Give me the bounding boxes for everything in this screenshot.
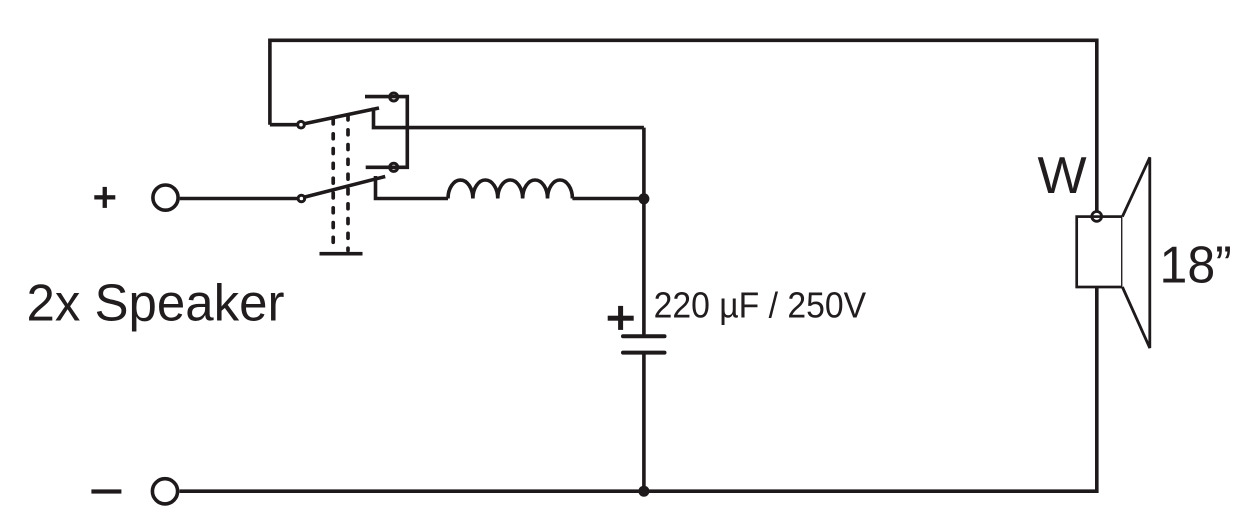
label + polarity at input — [94, 187, 115, 208]
switch S1b lower throw contact circle — [390, 163, 398, 171]
terminal - input circle — [152, 479, 177, 504]
speaker LS1 + terminal circle — [1092, 212, 1102, 222]
wire: bottom net from - input to woofer - — [180, 287, 1097, 491]
junction node B dot — [638, 486, 649, 497]
speaker LS1 cone — [1122, 157, 1149, 348]
switch S1b blade (lower pole) — [303, 177, 385, 198]
wire: stub to upper switch pole — [270, 123, 298, 127]
switch S1a throw terminal — [374, 108, 644, 128]
switch S1a pole contact circle — [298, 121, 305, 128]
wire: upper contact row to NC contact — [365, 97, 407, 168]
wire: inductor to node A — [572, 197, 644, 201]
wire: + input to lower switch pole — [180, 197, 298, 201]
inductor L1 — [448, 180, 572, 199]
svg-text:2x Speaker: 2x Speaker — [27, 275, 285, 333]
svg-text:220 µF / 250V: 220 µF / 250V — [654, 285, 867, 326]
junction node A dot — [638, 193, 649, 204]
terminal + input circle — [153, 185, 178, 210]
capacitor C1 plate top — [623, 334, 665, 338]
switch S1a blade (upper pole) — [303, 108, 379, 124]
speaker LS1 magnet box — [1077, 217, 1123, 287]
switch linkage dashed lines — [333, 115, 348, 251]
wire: node A vertical to capacitor — [642, 128, 646, 337]
svg-text:18”: 18” — [1160, 237, 1232, 295]
label - polarity at input — [91, 489, 121, 493]
switch S1a upper throw contact circle — [390, 93, 398, 101]
capacitor C1 + polarity mark — [608, 306, 634, 330]
capacitor C1 plate bottom — [623, 351, 665, 355]
wire: capacitor to bottom net — [642, 353, 646, 492]
wire: top net from switch input to woofer + — [270, 40, 1097, 212]
switch linkage bar — [320, 252, 363, 256]
switch S1b throw terminal — [376, 176, 449, 199]
switch S1b pole contact circle — [298, 195, 305, 202]
svg-text:W: W — [1038, 147, 1087, 205]
